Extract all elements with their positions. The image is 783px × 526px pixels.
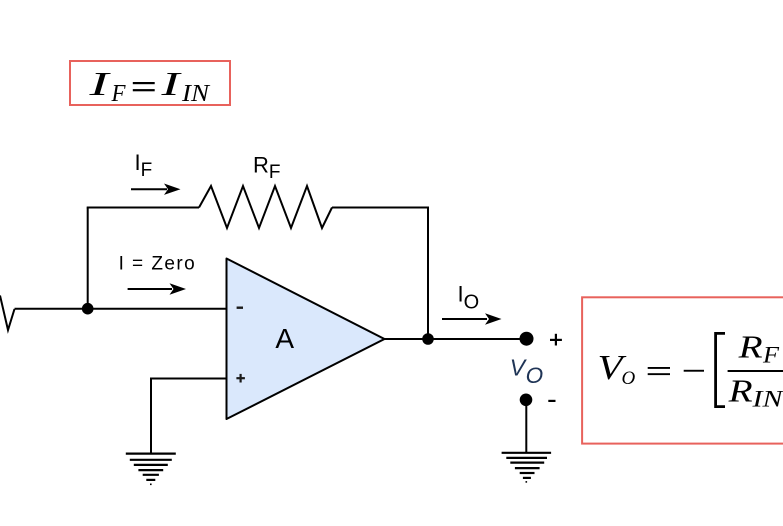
minus sign	[684, 370, 704, 372]
svg-text:O: O	[622, 368, 636, 389]
svg-text:R: R	[737, 329, 763, 365]
svg-text:IN: IN	[751, 386, 783, 411]
wire output	[385, 338, 527, 340]
wire input horizontal to inverting input	[15, 308, 227, 310]
wire ground stem left	[150, 378, 152, 454]
terminal VO plus	[520, 332, 534, 346]
fraction bar	[728, 370, 783, 372]
pin plus mark	[236, 374, 245, 383]
formula box IF = IIN	[70, 61, 230, 107]
wire feedback top right	[332, 207, 428, 209]
node output junction	[422, 333, 434, 345]
terminal VO minus	[520, 394, 533, 407]
wire noninverting input	[151, 378, 227, 380]
resistor RIN (partial, left edge)	[0, 296, 15, 331]
ground right	[502, 453, 551, 482]
svg-text:IO: IO	[458, 282, 480, 314]
wire feedback vertical right	[427, 207, 429, 340]
bracket left	[714, 332, 725, 408]
label plus	[550, 334, 562, 346]
wire ground stem right	[525, 400, 527, 453]
svg-text:F: F	[762, 343, 780, 368]
svg-text:F: F	[111, 81, 126, 107]
svg-text:A: A	[275, 323, 294, 354]
label minus	[548, 400, 555, 402]
svg-text:IF: IF	[135, 150, 153, 181]
svg-text:R: R	[727, 372, 753, 408]
pin minus mark	[237, 307, 243, 309]
arrow IO current	[442, 313, 502, 324]
op-amp A	[227, 259, 385, 420]
svg-text:I = Zero: I = Zero	[119, 254, 197, 275]
wire feedback top left	[87, 207, 199, 209]
ground left	[126, 454, 176, 485]
svg-text:I: I	[88, 66, 111, 103]
arrow I = Zero current	[128, 283, 186, 294]
node input junction	[82, 303, 94, 315]
formula box VO = -[RF/RIN (clipped at right)	[582, 297, 783, 443]
wire feedback vertical left	[87, 208, 89, 309]
svg-text:I: I	[160, 66, 182, 103]
equals sign	[648, 367, 670, 369]
resistor RF	[199, 186, 332, 228]
svg-text:IN: IN	[181, 81, 211, 107]
svg-text:VO: VO	[510, 355, 543, 389]
svg-text:RF: RF	[253, 152, 281, 183]
arrow IF current	[131, 184, 181, 195]
